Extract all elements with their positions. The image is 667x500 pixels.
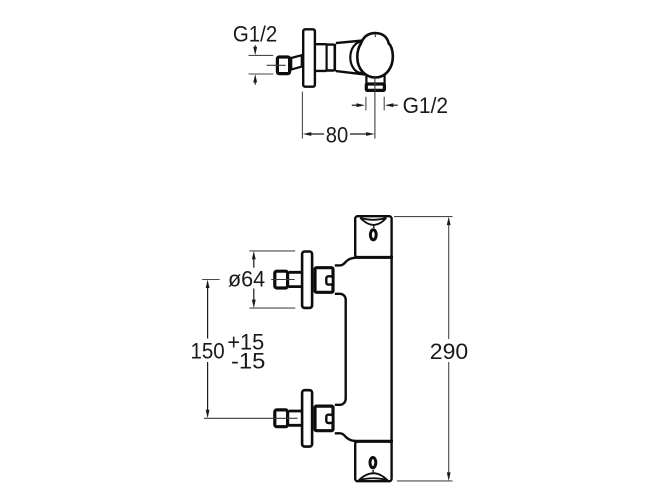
bottom wall bracket	[355, 442, 391, 482]
G1/2 left bottom arrow	[254, 81, 256, 85]
collar step	[326, 44, 328, 71]
80 dimension extension line left	[301, 92, 303, 139]
svg-text:G1/2: G1/2	[403, 93, 449, 118]
dia64 bottom arrow	[252, 300, 256, 309]
dia64 dimension line	[253, 257, 255, 303]
G1/2 right right arrow	[392, 104, 398, 106]
body bar right edge	[390, 257, 392, 441]
G1/2 left top arrow	[254, 45, 256, 49]
top bracket bottom heavy edge	[354, 256, 393, 259]
svg-text:ø64: ø64	[228, 266, 265, 291]
G1/2 right dimension extension lines	[366, 97, 384, 111]
upper handle housing	[315, 268, 333, 293]
valve body bottom edge	[336, 71, 366, 75]
290 extension lines	[394, 217, 453, 481]
top bracket recess crescent	[360, 218, 386, 220]
upper handle disc	[302, 252, 312, 308]
mounting collar B	[327, 45, 334, 71]
G1/2 left dimension extension lines	[249, 55, 274, 74]
dia64 extension lines	[249, 251, 295, 308]
mounting collar A	[316, 44, 327, 71]
top bracket tick	[373, 225, 375, 228]
lower handle stem	[289, 411, 302, 425]
control knob (side view, two-lobe outline)	[357, 33, 393, 77]
valve body top edge (side, tapered)	[336, 41, 363, 44]
handle rim arc (behind knob)	[350, 42, 372, 73]
top bracket screw slot	[370, 230, 376, 240]
150 bottom arrow	[206, 410, 210, 419]
80 right arrow	[366, 132, 375, 136]
upper handle knob	[275, 271, 288, 288]
svg-text:150: 150	[191, 339, 225, 364]
290 bottom arrow	[447, 472, 451, 481]
svg-text:-15: -15	[231, 348, 265, 373]
80 left arrow	[303, 132, 312, 136]
inlet union cone	[291, 55, 302, 69]
body contour above upper handle	[335, 258, 355, 266]
80 dimension line	[310, 133, 369, 135]
dia64 top arrow	[252, 251, 256, 260]
body contour between handles	[335, 294, 346, 405]
150 dimension line	[207, 286, 209, 412]
bottom bracket tick	[372, 470, 374, 473]
upper housing notch	[326, 276, 333, 284]
svg-text:80: 80	[326, 123, 348, 148]
upper handle center line	[271, 279, 294, 281]
wall plate (escutcheon, side view)	[303, 29, 315, 86]
150 dimension upper tick	[202, 279, 220, 281]
290 dimension line	[448, 223, 450, 475]
top wall bracket	[355, 216, 391, 257]
inlet center line	[267, 64, 286, 66]
lower handle center line	[204, 417, 298, 419]
body contour below lower handle	[335, 433, 355, 441]
lower housing notch	[326, 415, 333, 423]
bottom bracket screw slot	[370, 458, 376, 468]
upper handle stem	[289, 272, 302, 286]
outlet nut G1/2	[366, 84, 384, 90]
outlet center line	[374, 77, 376, 139]
bottom bracket recess crescent	[359, 478, 388, 480]
lower handle disc	[302, 390, 312, 446]
lower handle knob	[275, 410, 288, 427]
flange ring	[333, 44, 336, 72]
svg-text:290: 290	[430, 339, 468, 364]
outlet stub	[366, 72, 384, 84]
G1/2 right left arrow	[352, 104, 359, 106]
svg-text:G1/2: G1/2	[233, 21, 277, 46]
lower handle housing	[315, 406, 333, 431]
290 top arrow	[447, 217, 451, 226]
150 top arrow	[206, 280, 210, 289]
inlet nut G1/2 (left)	[277, 57, 289, 74]
bottom bracket top heavy edge	[354, 440, 393, 443]
knob top center tick	[374, 34, 376, 37]
